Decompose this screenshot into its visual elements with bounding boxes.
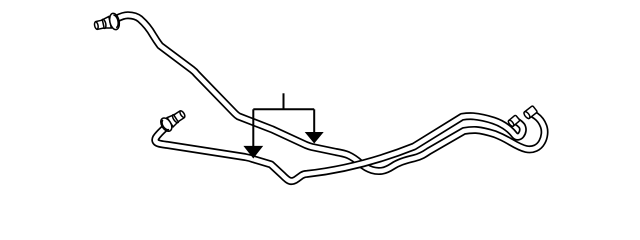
arrowhead onto tube A [305, 132, 324, 144]
callout left drop line [252, 109, 254, 146]
callout horizontal bar [253, 108, 314, 110]
fitting F2 (left flare fitting on tube B) [158, 107, 187, 133]
cap C1 on tube B hook end [507, 115, 520, 127]
fitting F1 (top-left flare fitting on tube A) [93, 12, 121, 34]
callout right drop line [313, 109, 315, 132]
arrowhead onto tube B [243, 146, 263, 159]
cap C2 on tube A hook end [523, 106, 538, 120]
callout leader stem [283, 93, 285, 109]
